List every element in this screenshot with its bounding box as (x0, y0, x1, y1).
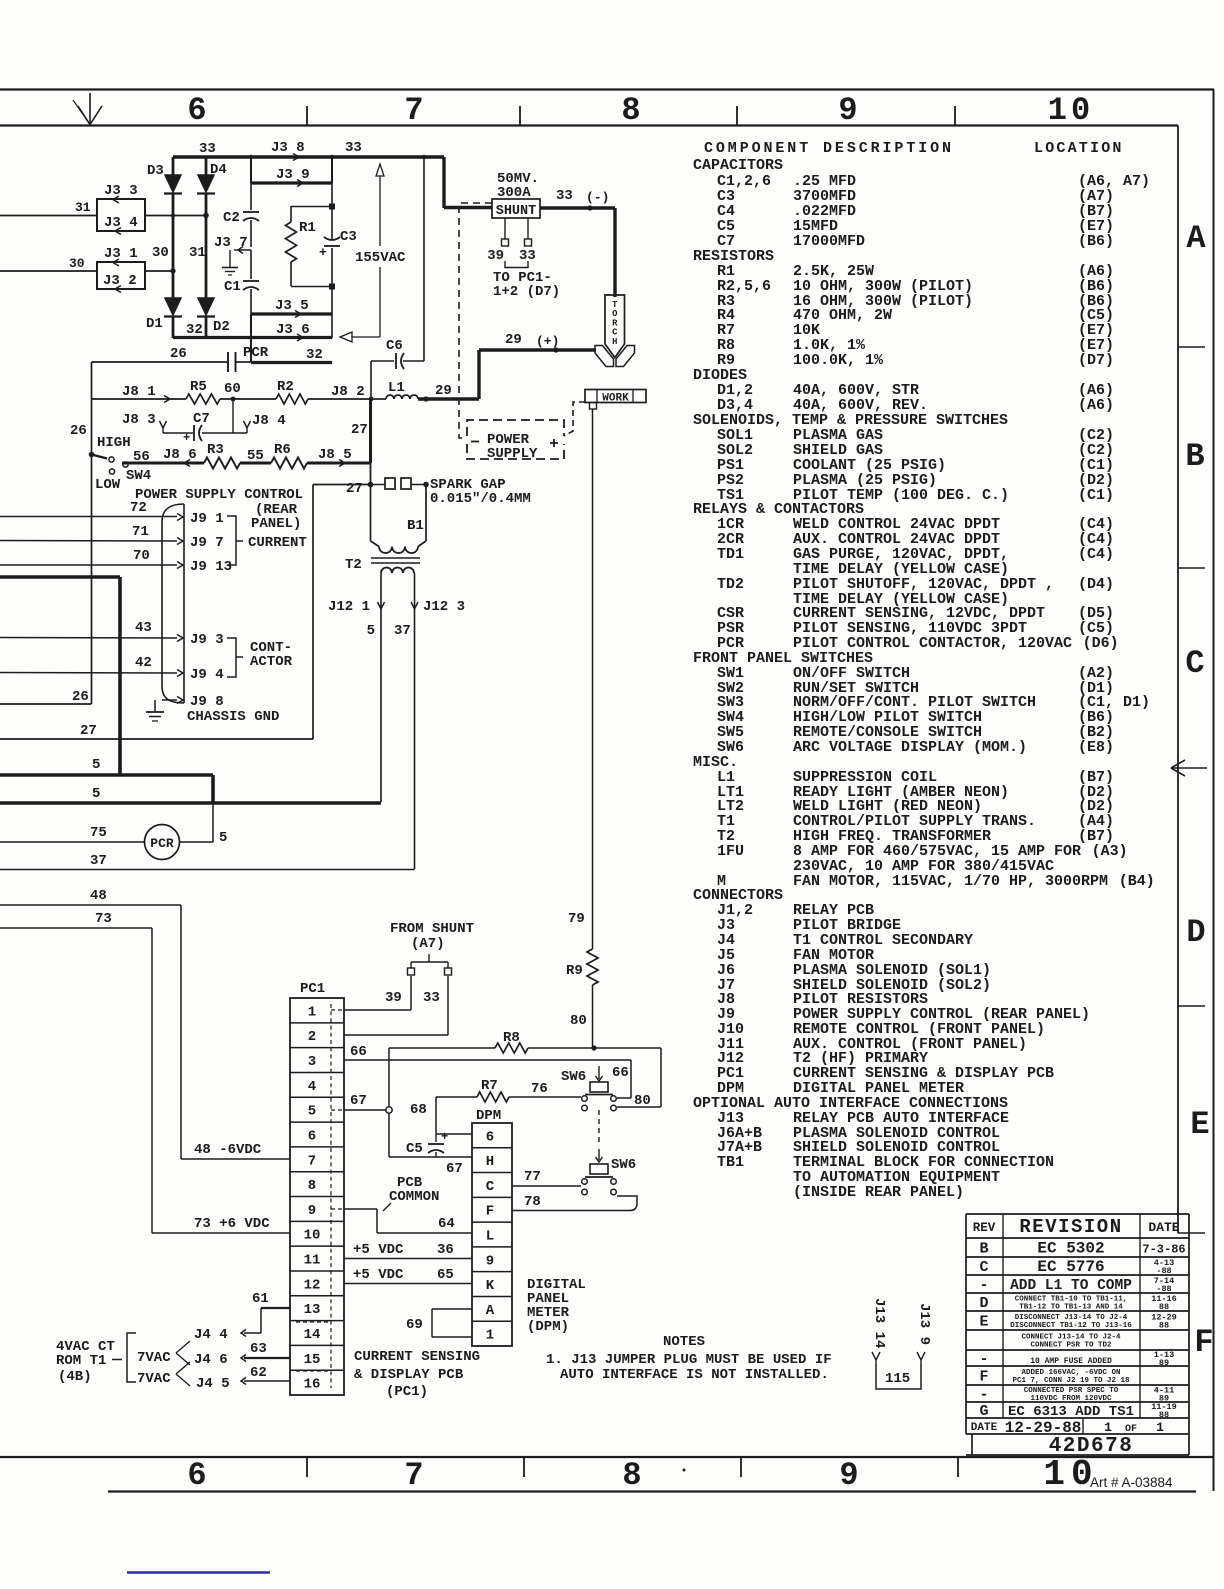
svg-text:(D4): (D4) (1078, 576, 1114, 593)
bracket contactor (227, 638, 293, 677)
svg-text:33: 33 (345, 140, 362, 156)
svg-text:J8 1: J8 1 (122, 384, 156, 400)
revision row E (979, 1313, 1176, 1331)
wire 33 negative lead to torch (540, 205, 615, 297)
wire net 48 (0, 888, 290, 1159)
svg-text:66: 66 (350, 1044, 367, 1060)
svg-text:CONNECT PSR TO TD2: CONNECT PSR TO TD2 (1030, 1342, 1112, 1350)
svg-text:(A3): (A3) (1092, 843, 1128, 860)
svg-text:89: 89 (1159, 1358, 1169, 1368)
label J8 1 (122, 384, 156, 400)
svg-text:LOCATION: LOCATION (1034, 140, 1124, 157)
svg-text:33: 33 (199, 141, 216, 157)
wire C6 branch (371, 157, 424, 399)
svg-text:-: - (979, 1387, 988, 1404)
svg-text:DISCONNECT TB1-12 TO J13-16: DISCONNECT TB1-12 TO J13-16 (1010, 1322, 1132, 1330)
svg-text:67: 67 (446, 1161, 463, 1177)
svg-text:L: L (486, 1229, 494, 1245)
revision row connect (1021, 1334, 1121, 1350)
svg-text:5: 5 (92, 786, 100, 802)
svg-text:55: 55 (247, 448, 264, 464)
revision table grid (966, 1214, 1189, 1455)
svg-text:PCR: PCR (243, 345, 269, 361)
svg-text:J4 4: J4 4 (194, 1327, 228, 1343)
svg-text:EC 6313 ADD TS1: EC 6313 ADD TS1 (1008, 1404, 1134, 1420)
svg-text:J8 2: J8 2 (331, 384, 365, 400)
svg-text:1+2 (D7): 1+2 (D7) (493, 284, 560, 300)
svg-text:K: K (486, 1278, 495, 1294)
svg-text:6: 6 (187, 1457, 206, 1494)
svg-text:C1: C1 (224, 279, 241, 295)
svg-text:(PC1): (PC1) (386, 1384, 428, 1400)
dashed link shunt to power supply (459, 203, 492, 438)
svg-text:J12 3: J12 3 (423, 599, 465, 615)
svg-text:& DISPLAY PCB: & DISPLAY PCB (354, 1367, 464, 1383)
svg-text:4: 4 (308, 1079, 316, 1095)
connector PC1 body (290, 981, 344, 1395)
bracket current (227, 516, 307, 565)
svg-text:R6: R6 (274, 442, 291, 458)
connector J12 3 (394, 599, 465, 639)
resistor R9 (566, 911, 598, 1048)
svg-text:J4 6: J4 6 (194, 1352, 228, 1368)
svg-text:F: F (486, 1204, 494, 1220)
svg-text:OF: OF (1125, 1424, 1137, 1435)
resistor R7 (477, 1078, 509, 1102)
wire net 27 vertical (351, 399, 371, 484)
from shunt bracket (390, 921, 474, 968)
svg-text:EC 5776: EC 5776 (1037, 1258, 1104, 1276)
svg-text:TD2: TD2 (717, 576, 744, 593)
label 33 (-) (556, 188, 609, 205)
svg-text:D: D (979, 1295, 988, 1312)
label 48 -6VDC (194, 1142, 262, 1158)
svg-text:J13 14: J13 14 (871, 1298, 887, 1348)
border right inner line (1177, 126, 1179, 1234)
svg-text:J3 7: J3 7 (214, 235, 248, 251)
svg-text:26: 26 (70, 423, 87, 439)
svg-text:33: 33 (423, 990, 440, 1006)
svg-text:PC1: PC1 (300, 981, 325, 997)
svg-text:J9 4: J9 4 (190, 667, 224, 683)
svg-text:FAN MOTOR, 115VAC, 1/70 HP, 30: FAN MOTOR, 115VAC, 1/70 HP, 3000RPM (793, 873, 1108, 890)
svg-text:+5 VDC: +5 VDC (353, 1242, 404, 1258)
border top-left down arrow (73, 93, 102, 125)
svg-text:-: - (979, 1351, 988, 1368)
svg-text:26: 26 (170, 346, 187, 362)
svg-text:110VDC FROM 120VDC: 110VDC FROM 120VDC (1030, 1395, 1112, 1403)
svg-text:(A6): (A6) (1078, 397, 1114, 414)
art number label (1090, 1475, 1173, 1490)
svg-text:L1: L1 (388, 380, 405, 396)
svg-text:7-3-86: 7-3-86 (1142, 1243, 1185, 1257)
svg-text:ARC VOLTAGE DISPLAY (MOM.): ARC VOLTAGE DISPLAY (MOM.) (793, 739, 1027, 756)
svg-text:NOTES: NOTES (663, 1334, 705, 1350)
border bottom zone numbers (187, 1454, 1098, 1495)
svg-text:E: E (979, 1314, 988, 1331)
wire R7 76 net (436, 1081, 581, 1097)
svg-text:J13 9: J13 9 (916, 1303, 932, 1345)
svg-text:CHASSIS GND: CHASSIS GND (187, 709, 279, 725)
connector J3 5 / J3 6 (251, 298, 332, 363)
svg-text:12: 12 (304, 1277, 321, 1293)
label digital panel meter (527, 1277, 586, 1335)
svg-text:H: H (612, 337, 617, 347)
svg-text:7: 7 (404, 92, 423, 129)
connector J3 1 / J3 2 (97, 246, 145, 293)
svg-text:(E8): (E8) (1078, 739, 1114, 756)
svg-text:ADDED 166VAC, -6VDC ON: ADDED 166VAC, -6VDC ON (1021, 1369, 1120, 1377)
svg-text:76: 76 (531, 1081, 548, 1097)
svg-text:R8: R8 (503, 1030, 520, 1046)
notes (546, 1334, 832, 1383)
wire 72 to J9 1 (0, 500, 224, 527)
svg-text:E: E (1190, 1106, 1209, 1143)
wire column C1 C2 (250, 157, 252, 314)
svg-text:CAPACITORS: CAPACITORS (693, 157, 783, 174)
wire 31 into J3 4 (0, 200, 209, 218)
wire 78 DPM F (512, 1194, 637, 1211)
svg-text:R2: R2 (277, 379, 294, 395)
border bottom zone ticks (307, 1457, 958, 1477)
svg-text:13: 13 (304, 1302, 321, 1318)
svg-text:78: 78 (524, 1194, 541, 1210)
connector J3 8 / J3 9 (251, 140, 332, 187)
svg-text:POWER SUPPLY CONTROL: POWER SUPPLY CONTROL (135, 487, 303, 503)
svg-text:B: B (1185, 438, 1204, 475)
svg-text:C6: C6 (386, 338, 403, 354)
wire net 5 upper (0, 757, 213, 775)
svg-text:63: 63 (250, 1341, 267, 1357)
drawing number 42D678 (1049, 1435, 1134, 1458)
svg-text:(C1): (C1) (1078, 487, 1114, 504)
svg-text:6: 6 (308, 1128, 316, 1144)
border right zone letters (1185, 220, 1213, 1361)
wire 62 PC1 16 to J4 5 (196, 1365, 290, 1392)
svg-text:30: 30 (69, 256, 85, 271)
svg-text:SUPPLY: SUPPLY (487, 446, 538, 462)
svg-text:11: 11 (304, 1253, 321, 1269)
svg-text:AUTO INTERFACE IS NOT INSTALLE: AUTO INTERFACE IS NOT INSTALLED. (560, 1367, 829, 1383)
wire 63 PC1 15 to J4 6 (194, 1341, 290, 1368)
svg-text:2: 2 (308, 1029, 316, 1045)
svg-text:8: 8 (308, 1178, 316, 1194)
svg-text:5: 5 (367, 623, 375, 639)
wire 70 to J9 13 (0, 548, 232, 575)
connector J13 9 (916, 1303, 932, 1364)
svg-text:TB1: TB1 (717, 1154, 744, 1171)
svg-text:30: 30 (152, 245, 169, 261)
svg-text:J3 1: J3 1 (104, 246, 138, 262)
svg-text:C5: C5 (406, 1141, 423, 1157)
svg-text:27: 27 (351, 422, 368, 438)
svg-text:68: 68 (410, 1102, 427, 1118)
svg-text:Art # A-03884: Art # A-03884 (1090, 1475, 1173, 1490)
svg-text:(+): (+) (536, 334, 559, 349)
svg-text:9: 9 (838, 92, 857, 129)
svg-text:J3 2: J3 2 (103, 273, 137, 289)
diode D1 (146, 298, 182, 332)
svg-text:80: 80 (634, 1093, 651, 1109)
resistor R5 (186, 379, 220, 404)
svg-text:79: 79 (568, 911, 585, 927)
svg-text:B1: B1 (407, 518, 424, 534)
label power supply control (135, 487, 303, 532)
wire 61 PC1 13 to J4 4 (194, 1291, 290, 1343)
svg-text:7: 7 (404, 1457, 423, 1494)
wire net 5 lower (0, 775, 381, 803)
svg-text:TD1: TD1 (717, 546, 744, 563)
torch symbol (595, 295, 635, 367)
svg-text:42: 42 (135, 655, 152, 671)
label current sensing pcb (354, 1349, 480, 1400)
connector J9 8 chassis ground (146, 694, 279, 725)
label net 30 31 (152, 245, 206, 261)
svg-text:H: H (486, 1154, 494, 1170)
svg-text:5: 5 (308, 1104, 316, 1120)
svg-text:ROM T1: ROM T1 (56, 1353, 106, 1369)
svg-text:EC 5302: EC 5302 (1037, 1240, 1104, 1258)
svg-text:6: 6 (187, 92, 206, 129)
capacitor C3 (319, 229, 357, 260)
measurement arrow 155VAC (340, 164, 406, 342)
svg-text:75: 75 (90, 825, 107, 841)
svg-text:PC1 7, CONN J2 19 TO J2 18: PC1 7, CONN J2 19 TO J2 18 (1012, 1377, 1130, 1385)
svg-text:PCR: PCR (150, 836, 174, 851)
svg-text:72: 72 (130, 500, 147, 516)
svg-text:14: 14 (304, 1327, 321, 1343)
revision row add L1 (979, 1276, 1174, 1294)
wire J8 6 R3 R6 line (122, 447, 371, 467)
wire 33 top bus (173, 155, 492, 208)
svg-text:(B6): (B6) (1078, 233, 1114, 250)
svg-text:J8 4: J8 4 (252, 413, 286, 429)
svg-text:32: 32 (306, 347, 323, 363)
connector J3 7 with ground (214, 235, 251, 275)
svg-text:66: 66 (612, 1065, 629, 1081)
svg-text:-88: -88 (1156, 1266, 1171, 1276)
svg-text:CONNECT J13-14 TO J2-4: CONNECT J13-14 TO J2-4 (1021, 1334, 1121, 1342)
revision row G (979, 1402, 1176, 1420)
wire J8 1 line (92, 396, 387, 403)
svg-text:A: A (1186, 220, 1206, 257)
border bottom outer line (108, 1490, 1196, 1492)
svg-text:8: 8 (622, 1457, 641, 1494)
svg-text:10: 10 (304, 1228, 321, 1244)
svg-text:+: + (441, 1130, 448, 1144)
svg-text:+: + (183, 431, 190, 445)
wire 39 from shunt to PC1 1 (344, 968, 415, 1010)
transformer T2 core (345, 557, 420, 573)
svg-text:REVISION: REVISION (1019, 1216, 1122, 1238)
svg-text:88: 88 (1159, 1410, 1169, 1420)
svg-text:SHUNT: SHUNT (496, 204, 537, 219)
svg-text:(INSIDE REAR PANEL): (INSIDE REAR PANEL) (793, 1184, 964, 1201)
label 73 +6 VDC (194, 1216, 270, 1232)
wire net 26 vertical (70, 362, 92, 704)
diode D2 (197, 298, 230, 335)
svg-text:F: F (979, 1369, 988, 1386)
svg-text:J4 5: J4 5 (196, 1376, 230, 1392)
diode D4 (197, 162, 227, 194)
svg-text:DATE: DATE (971, 1422, 998, 1434)
svg-text:37: 37 (90, 853, 107, 869)
transformer T2 secondary (381, 568, 415, 870)
svg-text:C: C (1185, 645, 1204, 682)
svg-text:REV: REV (973, 1221, 996, 1235)
svg-text:(4B): (4B) (58, 1369, 92, 1385)
connector DPM body (472, 1108, 512, 1346)
wire +5 VDC PC1 11 (344, 1242, 472, 1259)
label 29 (+) (505, 332, 559, 349)
svg-text:10: 10 (1048, 92, 1094, 129)
svg-text:39: 39 (385, 990, 402, 1006)
component table title (704, 140, 1124, 157)
svg-text:SW4: SW4 (126, 468, 151, 484)
svg-text:61: 61 (252, 1291, 269, 1307)
svg-text:ADD L1 TO COMP: ADD L1 TO COMP (1010, 1278, 1132, 1294)
border bottom inner line (0, 1456, 1213, 1458)
label 80 right (634, 1093, 651, 1109)
wire 43 to J9 3 (0, 620, 224, 648)
work electrode box (585, 390, 646, 410)
power supply dashed box (467, 420, 564, 462)
svg-text:J8 3: J8 3 (122, 412, 156, 428)
svg-text:PANEL): PANEL) (251, 516, 301, 532)
svg-text:R5: R5 (190, 379, 207, 395)
svg-text:FROM SHUNT: FROM SHUNT (390, 921, 474, 937)
wire 67 net to DPM H (389, 1157, 472, 1177)
svg-text:31: 31 (75, 200, 91, 215)
svg-text:(-): (-) (586, 190, 609, 205)
svg-text:(DPM): (DPM) (527, 1319, 569, 1335)
wire 64 PC1 9 to DPM L (344, 1209, 472, 1233)
label 29 at L1 (435, 383, 452, 399)
wire bridge bottom (173, 322, 251, 338)
svg-text:-: - (979, 1277, 988, 1294)
svg-text:CURRENT: CURRENT (248, 535, 307, 551)
svg-text:64: 64 (438, 1216, 455, 1232)
svg-text:R7: R7 (481, 1078, 498, 1094)
svg-text:R3: R3 (207, 442, 224, 458)
resistor R2 (276, 379, 308, 404)
svg-text:SW6: SW6 (561, 1069, 586, 1085)
svg-text:CONNECTED PSR SPEC TO: CONNECTED PSR SPEC TO (1024, 1387, 1119, 1395)
svg-text:D: D (1186, 914, 1205, 951)
svg-text:J3 3: J3 3 (104, 183, 138, 199)
svg-text:155VAC: 155VAC (355, 250, 406, 266)
svg-text:C: C (486, 1179, 495, 1195)
wire 67 PC1 5 (344, 1093, 392, 1113)
wire net 26 PCR line (92, 346, 323, 363)
svg-text:17000MFD: 17000MFD (793, 233, 865, 250)
switch SW4 high/low (89, 435, 152, 493)
wire 77 DPM C to SW6 (512, 1169, 581, 1186)
resistor R8 (495, 1030, 528, 1053)
svg-text:+5 VDC: +5 VDC (353, 1267, 404, 1283)
svg-text:26: 26 (72, 689, 89, 705)
resistor R1 (286, 206, 333, 287)
svg-text:A: A (486, 1303, 495, 1319)
capacitor C5 (406, 1130, 448, 1157)
revision row B (979, 1240, 1185, 1258)
connector J8 3 / C7 / J8 4 loop (122, 399, 286, 445)
svg-text:36: 36 (437, 1242, 454, 1258)
diode D3 (147, 163, 182, 194)
svg-text:(B4): (B4) (1119, 873, 1155, 890)
svg-text:J8 5: J8 5 (318, 447, 352, 463)
border top zone ticks (307, 106, 955, 126)
wire 42 to J9 4 (0, 655, 224, 683)
svg-text:1. J13 JUMPER PLUG MUST BE USE: 1. J13 JUMPER PLUG MUST BE USED IF (546, 1352, 832, 1368)
svg-text:88: 88 (1159, 1302, 1169, 1312)
capacitor C1 (224, 279, 259, 295)
node 33 labels top (199, 140, 362, 157)
svg-text:LOW: LOW (95, 477, 121, 493)
resistor R6 (271, 442, 307, 469)
spark gap (346, 477, 531, 507)
svg-text:9: 9 (839, 1457, 858, 1494)
blue pen line (127, 1571, 270, 1574)
svg-text:29: 29 (435, 383, 452, 399)
svg-text:48 -6VDC: 48 -6VDC (194, 1142, 262, 1158)
svg-text:0.015″/0.4MM: 0.015″/0.4MM (430, 491, 531, 507)
wire 26 bottom entry (0, 689, 92, 705)
svg-text:COMMON: COMMON (389, 1189, 439, 1205)
svg-text:C: C (979, 1259, 988, 1276)
border right outer line (1213, 90, 1215, 1492)
resistor R3 (204, 442, 240, 469)
svg-text:60: 60 (224, 381, 241, 397)
component description list (693, 157, 1155, 1201)
svg-text:39: 39 (487, 248, 504, 264)
svg-text:65: 65 (437, 1267, 454, 1283)
wire 33 from shunt to PC1 2 (344, 968, 452, 1035)
wire 29 positive lead (418, 347, 596, 401)
svg-text:37: 37 (394, 623, 411, 639)
svg-text:J9 8: J9 8 (190, 694, 224, 710)
svg-text:7VAC: 7VAC (137, 1350, 171, 1366)
wire 69 loop DPM A to 1 (406, 1309, 472, 1337)
svg-text:CONNECT TB1-10 TO TB1-11,: CONNECT TB1-10 TO TB1-11, (1015, 1296, 1128, 1304)
svg-text:-88: -88 (1156, 1284, 1171, 1294)
svg-text:J8 6: J8 6 (163, 447, 197, 463)
node 60 (224, 381, 241, 397)
switch SW6 momentary upper (561, 1065, 629, 1111)
label 4VAC CT source (56, 1333, 190, 1387)
svg-text:COMPONENT DESCRIPTION: COMPONENT DESCRIPTION (704, 140, 954, 157)
dashed gang link SW6 (598, 1110, 600, 1144)
svg-text:G: G (979, 1403, 988, 1420)
svg-text:J3 9: J3 9 (276, 167, 310, 183)
wire net 27 horizontal (0, 485, 370, 740)
svg-text:D4: D4 (210, 162, 227, 178)
svg-text:27: 27 (80, 723, 97, 739)
svg-text:31: 31 (189, 245, 206, 261)
svg-text:27: 27 (346, 481, 363, 497)
svg-text:80: 80 (570, 1013, 587, 1029)
shunt 50MV 300A (487, 171, 560, 300)
revision row psr spec (979, 1386, 1174, 1404)
svg-text:D3: D3 (147, 163, 164, 179)
capacitor C2 (223, 210, 259, 226)
svg-text:42D678: 42D678 (1049, 1435, 1134, 1458)
relay coil PCR (0, 803, 227, 860)
svg-text:HIGH: HIGH (97, 435, 131, 451)
svg-text:5: 5 (92, 757, 100, 773)
connector J3 3 / J3 4 (97, 183, 145, 235)
svg-text:7VAC: 7VAC (137, 1371, 171, 1387)
